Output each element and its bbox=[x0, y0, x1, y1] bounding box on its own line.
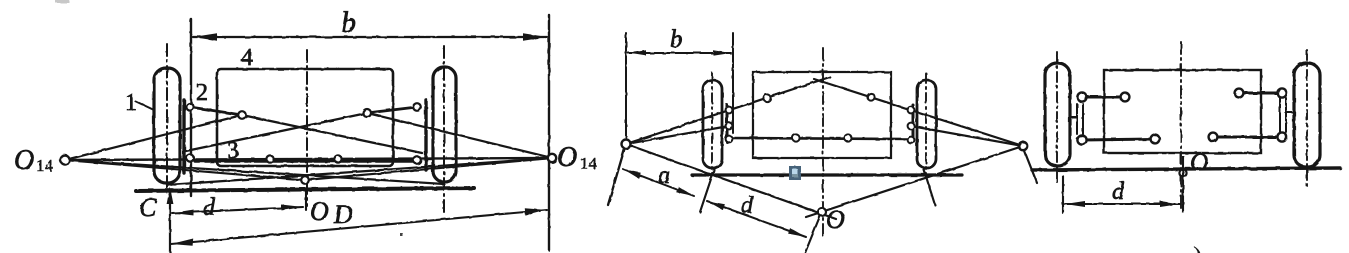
left knuckle bar bbox=[1076, 104, 1078, 134]
node right lower arm tip bbox=[1209, 133, 1218, 142]
node right knuckle top joint bbox=[413, 103, 421, 111]
link: cross rod left-to-right bbox=[242, 115, 422, 153]
node left knuckle bottom joint bbox=[186, 154, 193, 161]
right knuckle bar bbox=[912, 105, 915, 142]
frame 4 chassis rectangle bbox=[217, 69, 393, 166]
wire: O14 through line bbox=[65, 158, 552, 160]
right wheel tyre bbox=[433, 67, 456, 182]
node left knuckle top joint bbox=[186, 103, 193, 110]
wire: O extension tick bbox=[805, 216, 820, 253]
svg-text:D: D bbox=[333, 200, 353, 229]
link: right lower arm bbox=[1213, 136, 1282, 139]
svg-text:1: 1 bbox=[125, 90, 137, 116]
right wheel tyre bbox=[917, 80, 936, 168]
wire: dimension line b bbox=[628, 52, 731, 54]
node O joint bbox=[818, 208, 826, 216]
wire: dimension line d bbox=[172, 207, 303, 213]
wire: left kingpin axis extension bbox=[608, 147, 625, 205]
wire: left knuckle stub bbox=[1070, 116, 1077, 118]
node O14 left pivot bbox=[61, 156, 70, 165]
node tie rod right joint bbox=[334, 155, 341, 162]
wire: right wheel centerline bbox=[443, 46, 445, 214]
node left knuckle top joint bbox=[1077, 92, 1086, 101]
right knuckle bar bbox=[1279, 98, 1281, 132]
node upper-right rod joint bbox=[363, 109, 371, 117]
wire: dimension line D bbox=[171, 210, 547, 244]
svg-text:14: 14 bbox=[36, 156, 54, 175]
wire: left apex to mid knuckle bbox=[626, 126, 729, 144]
wire: left wheel centerline bbox=[711, 73, 713, 177]
wire: dimension line d bbox=[1065, 203, 1180, 205]
svg-text:): ) bbox=[1193, 242, 1202, 253]
link: lower tie rod bbox=[730, 138, 911, 139]
wire: dimension line b bbox=[193, 36, 547, 38]
svg-text:C: C bbox=[139, 193, 157, 222]
wire: left wheel centerline bbox=[166, 44, 168, 188]
wire: left wheel centerline bbox=[1056, 52, 1058, 186]
node right upper arm tip bbox=[1235, 89, 1244, 98]
link: right upper arm bbox=[1239, 92, 1282, 95]
node tie rod left joint bbox=[266, 155, 273, 162]
svg-text:14: 14 bbox=[580, 154, 598, 173]
svg-text:b: b bbox=[670, 26, 683, 53]
wire: d extension left bbox=[1062, 176, 1064, 213]
link: left upper rod to center bbox=[626, 77, 830, 144]
svg-text:O: O bbox=[557, 142, 577, 173]
left wheel tyre bbox=[154, 68, 180, 183]
wire: d extension right (center) bbox=[1182, 156, 1184, 213]
ground line bbox=[692, 173, 962, 176]
wire: right apex diagonal to O bbox=[806, 146, 1023, 217]
wire: right apex to mid knuckle bbox=[911, 126, 1023, 146]
node left knuckle mid bbox=[726, 123, 733, 130]
node lower rod left joint bbox=[792, 134, 799, 141]
node upper rod left joint bbox=[763, 94, 770, 101]
wire: dimension b extension line right bbox=[548, 15, 550, 250]
svg-text:2: 2 bbox=[196, 80, 208, 106]
node bottom center joint O bbox=[301, 176, 309, 184]
wire: dimension line a bbox=[623, 169, 694, 196]
wire: O14 left to bottom center bbox=[65, 160, 305, 180]
node right knuckle top bbox=[908, 107, 915, 114]
link: cross rod right-to-left bbox=[186, 113, 367, 151]
wire: vehicle centerline bbox=[306, 50, 308, 206]
node left knuckle bottom bbox=[726, 136, 733, 143]
node right apex pivot bbox=[1019, 142, 1027, 150]
svg-text:a: a bbox=[658, 163, 670, 189]
chassis rectangle bbox=[1104, 70, 1261, 153]
svg-text:d: d bbox=[1112, 179, 1125, 205]
link: upper-right knuckle arm bbox=[367, 107, 417, 113]
svg-text:d: d bbox=[203, 195, 216, 221]
link: left lower arm bbox=[1082, 139, 1155, 140]
wire: dimension b extension line left bbox=[190, 19, 192, 196]
node upper-left rod joint bbox=[238, 111, 246, 119]
link: upper-left knuckle arm bbox=[190, 107, 242, 115]
svg-text:O: O bbox=[826, 205, 845, 234]
wire: right wheel centerline bbox=[925, 73, 927, 177]
svg-text:O: O bbox=[14, 145, 34, 176]
wire: right wheel contact tick bbox=[924, 170, 935, 205]
speck bbox=[400, 233, 403, 236]
wire: right kingpin axis tick bbox=[1024, 150, 1037, 183]
label 1 leader bbox=[135, 101, 154, 110]
wire: dimension line d bbox=[707, 201, 806, 237]
node right knuckle bottom bbox=[908, 137, 915, 144]
wire: left apex diagonal to O bbox=[626, 144, 836, 219]
ground line bbox=[1032, 168, 1340, 170]
node right knuckle top joint bbox=[1277, 88, 1286, 97]
wire: C leader vertical below ground bbox=[169, 190, 171, 253]
node right knuckle bottom joint bbox=[413, 156, 421, 164]
wire: O14 left to right wheel contact bbox=[65, 160, 444, 184]
wire: right wheel centerline bbox=[1306, 50, 1308, 190]
grey smudge top-left bbox=[55, 0, 69, 3]
selection handle artifact bbox=[789, 166, 801, 180]
wire: vehicle centerline bbox=[1180, 42, 1182, 212]
wire: O14 line to upper joint bbox=[65, 115, 242, 160]
node O14 right pivot bbox=[548, 154, 556, 162]
node left apex pivot bbox=[622, 140, 631, 149]
right knuckle bar bbox=[424, 100, 427, 170]
svg-text:3: 3 bbox=[227, 138, 239, 164]
wire: O14 right to upper joint bbox=[367, 113, 552, 158]
link: left upper arm bbox=[1082, 96, 1125, 99]
node left lower arm tip bbox=[1151, 135, 1160, 144]
wire: b extension left bbox=[625, 33, 627, 139]
wire: left wheel contact tick bbox=[700, 170, 714, 212]
node left knuckle bottom joint bbox=[1077, 135, 1086, 144]
wire: bottom center to O14 right bbox=[305, 158, 552, 180]
wire: center tick at d right end bbox=[305, 190, 307, 210]
left wheel tyre bbox=[1045, 63, 1070, 166]
node O center joint bbox=[1179, 169, 1186, 176]
svg-text:4: 4 bbox=[241, 45, 253, 71]
left knuckle bar bbox=[726, 105, 729, 142]
node lower rod right joint bbox=[844, 134, 851, 141]
wire: O14 right to left wheel contact bbox=[167, 158, 552, 185]
node right knuckle bottom joint bbox=[1277, 132, 1286, 141]
wire: right knuckle stub bbox=[1286, 111, 1294, 113]
svg-text:O: O bbox=[310, 197, 329, 226]
chassis rectangle bbox=[753, 72, 891, 158]
ground line bbox=[136, 188, 474, 191]
wire: vehicle centerline bbox=[822, 48, 824, 237]
right wheel tyre bbox=[1294, 63, 1320, 167]
link: tie rod 3 bbox=[195, 159, 416, 162]
wire: b extension right bbox=[732, 33, 734, 133]
node left upper arm tip bbox=[1121, 93, 1130, 102]
svg-text:b: b bbox=[341, 6, 356, 39]
link: right upper rod to center bbox=[814, 79, 1023, 146]
svg-text:d: d bbox=[741, 193, 754, 219]
node left knuckle top bbox=[726, 107, 733, 114]
node right knuckle mid bbox=[908, 123, 915, 130]
left wheel tyre bbox=[703, 80, 722, 168]
node upper rod right joint bbox=[867, 93, 874, 100]
left knuckle bar 2 bbox=[182, 100, 185, 173]
svg-text:O: O bbox=[1190, 149, 1208, 176]
